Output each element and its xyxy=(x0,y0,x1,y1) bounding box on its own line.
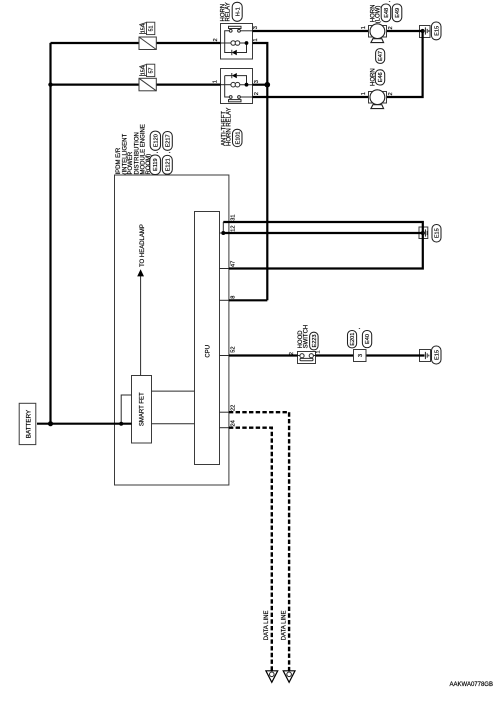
svg-text:CPU: CPU xyxy=(205,345,211,358)
svg-text:15A: 15A xyxy=(140,23,146,33)
svg-text:POWER: POWER xyxy=(128,151,134,174)
svg-text:DATA LINE: DATA LINE xyxy=(264,611,270,641)
svg-text:RELAY: RELAY xyxy=(226,2,232,21)
svg-text:8: 8 xyxy=(230,296,236,299)
svg-text:2: 2 xyxy=(388,26,394,29)
svg-text:24: 24 xyxy=(230,420,236,426)
svg-text:E47: E47 xyxy=(378,51,384,61)
svg-text:BATTERY: BATTERY xyxy=(25,409,32,438)
svg-text:3: 3 xyxy=(253,26,259,29)
svg-text:E49: E49 xyxy=(395,8,401,18)
svg-text:1: 1 xyxy=(361,92,367,95)
svg-text:TO HEADLAMP: TO HEADLAMP xyxy=(140,224,146,267)
svg-text:HORN: HORN xyxy=(370,68,376,86)
svg-text:E15: E15 xyxy=(435,228,441,238)
svg-text:57: 57 xyxy=(148,68,154,74)
svg-text:2: 2 xyxy=(213,38,219,41)
svg-text:E223: E223 xyxy=(312,334,318,347)
svg-text:DISTRIBUTION: DISTRIBUTION xyxy=(134,132,140,174)
svg-text:1: 1 xyxy=(316,350,322,353)
svg-text:E40: E40 xyxy=(365,334,371,344)
svg-text:22: 22 xyxy=(230,405,236,411)
svg-text:1: 1 xyxy=(253,38,259,41)
svg-text:E48: E48 xyxy=(384,8,390,18)
svg-text:3: 3 xyxy=(254,80,260,83)
svg-text:E121: E121 xyxy=(165,158,171,171)
svg-text:12: 12 xyxy=(230,225,236,231)
svg-text:ROOM): ROOM) xyxy=(146,154,152,175)
svg-text:(LOW): (LOW) xyxy=(376,6,382,24)
svg-text:E15: E15 xyxy=(434,26,440,36)
svg-text:1: 1 xyxy=(213,80,219,83)
svg-text:2: 2 xyxy=(254,92,260,95)
svg-text:SWITCH: SWITCH xyxy=(303,325,309,349)
svg-text:3: 3 xyxy=(358,354,364,357)
svg-text:51: 51 xyxy=(148,26,154,32)
svg-text:H-1: H-1 xyxy=(235,7,241,16)
svg-text:2: 2 xyxy=(388,92,394,95)
svg-text:2: 2 xyxy=(289,352,295,355)
svg-text:SMART FET: SMART FET xyxy=(140,392,146,426)
svg-text:47: 47 xyxy=(230,261,236,267)
svg-text:E15: E15 xyxy=(434,350,440,360)
svg-text:IPDM E/R: IPDM E/R xyxy=(116,147,122,174)
svg-text:52: 52 xyxy=(230,346,236,352)
svg-text:31: 31 xyxy=(230,214,236,220)
svg-text:E46: E46 xyxy=(378,72,384,82)
svg-text:E101: E101 xyxy=(235,131,241,144)
svg-text:DATA LINE: DATA LINE xyxy=(282,611,288,641)
svg-text:AAKWA0778GB: AAKWA0778GB xyxy=(450,682,493,688)
svg-text:E201: E201 xyxy=(350,333,356,346)
svg-text:15A: 15A xyxy=(140,65,146,75)
svg-text:1: 1 xyxy=(361,26,367,29)
svg-text:E119: E119 xyxy=(153,158,159,171)
svg-text:E217: E217 xyxy=(166,134,172,147)
svg-text:E120: E120 xyxy=(153,134,159,147)
svg-text:HORN RELAY: HORN RELAY xyxy=(227,107,233,146)
